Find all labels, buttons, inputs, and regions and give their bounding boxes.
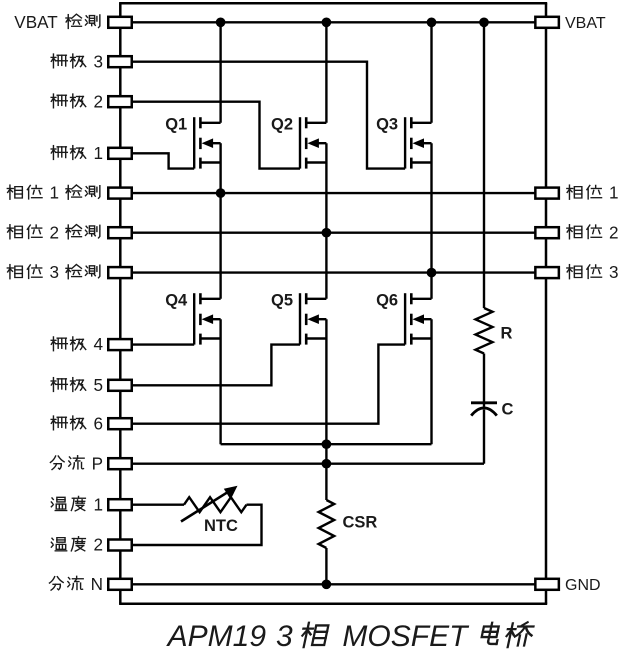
junction phase2-Q2/Q5 — [322, 228, 332, 238]
junction phase1-Q1/Q4 — [216, 188, 226, 198]
wire NTC loop to temp 2 — [120, 505, 261, 545]
pin 相位 1 检测 — [108, 188, 132, 199]
label 温度 1 — [51, 497, 66, 510]
label 栅极 5 — [51, 378, 67, 392]
label 栅极 3 — [51, 54, 67, 68]
wire Q3 drain to VBAT rail — [430, 22, 432, 123]
svg-text:3: 3 — [276, 620, 293, 653]
junction VBAT-Q3 — [427, 17, 437, 27]
junction phase3-Q3/Q6 — [427, 268, 437, 278]
svg-text:6: 6 — [93, 414, 103, 433]
junction VBAT-Q1 — [216, 17, 226, 27]
wire phase 2 rail — [120, 231, 546, 233]
wire phase 1 rail — [120, 192, 546, 194]
transistor Q1 — [194, 117, 220, 168]
pin 相位 2 (right) — [535, 227, 559, 238]
label 栅极 2 — [51, 94, 67, 108]
pin 相位 3 检测 — [108, 267, 132, 278]
wire CSR to shunt N rail — [325, 548, 327, 584]
pin 栅极 3 — [108, 56, 132, 67]
pin 温度 1 — [108, 499, 132, 510]
pin 栅极 5 — [108, 380, 132, 391]
svg-text:GND: GND — [565, 577, 601, 594]
label 栅极 1 — [51, 146, 67, 160]
pin 栅极 4 — [108, 339, 132, 350]
svg-text:1: 1 — [49, 184, 59, 203]
pin 相位 1 (right) — [535, 188, 559, 199]
svg-text:2: 2 — [93, 536, 103, 555]
wire Q6 source down — [430, 319, 432, 444]
junction shunt P-CSR — [322, 459, 332, 469]
svg-text:4: 4 — [93, 335, 103, 354]
IC package outline bottom border — [119, 603, 547, 606]
pin 栅极 6 — [108, 418, 132, 429]
label 相位 3 (right) — [567, 265, 582, 279]
svg-text:1: 1 — [609, 184, 619, 203]
transistor Q6 — [405, 293, 431, 344]
svg-text:C: C — [502, 400, 514, 418]
wire Q1 source to phase 1 rail — [219, 143, 221, 193]
svg-text:Q6: Q6 — [376, 291, 398, 309]
NTC arrow — [181, 486, 238, 522]
wire Q4 drain to phase rail — [219, 193, 221, 299]
pin VBAT 检测 — [108, 17, 132, 28]
wire Q2 source to phase 2 rail — [325, 143, 327, 233]
svg-text:MOSFET: MOSFET — [342, 620, 470, 653]
svg-text:P: P — [92, 454, 103, 473]
label 栅极 6 — [51, 416, 67, 430]
svg-text:2: 2 — [609, 223, 619, 242]
svg-text:Q4: Q4 — [165, 291, 188, 309]
wire gate 5 to Q5 — [120, 345, 300, 386]
pin 分流 N — [108, 579, 132, 590]
label 温度 2 — [51, 538, 66, 551]
wire Q1 drain to VBAT rail — [219, 22, 221, 123]
pin 栅极 1 — [108, 148, 132, 159]
wire Q4-Q6 source join horizontal — [221, 443, 432, 445]
wire gate 2 to Q2 — [120, 102, 300, 169]
pin 温度 2 — [108, 540, 132, 551]
svg-text:3: 3 — [609, 263, 619, 282]
transistor Q4 — [194, 293, 220, 344]
wire gate 1 to Q1 — [120, 153, 194, 168]
resistor CSR — [319, 500, 335, 548]
svg-text:Q2: Q2 — [271, 115, 293, 133]
wire Q2 drain to VBAT rail — [325, 22, 327, 123]
wire Q4 source down — [219, 319, 221, 444]
wire R to C — [483, 354, 485, 407]
pin VBAT (right) — [535, 17, 559, 28]
svg-text:1: 1 — [93, 144, 103, 163]
wire C to shunt P rail — [483, 410, 485, 464]
pin 栅极 2 — [108, 96, 132, 107]
wire VBAT rail — [120, 21, 546, 23]
IC package outline right border — [545, 3, 548, 604]
pin GND (right) — [535, 579, 559, 590]
svg-text:2: 2 — [93, 92, 103, 111]
pin 相位 2 检测 — [108, 227, 132, 238]
junction VBAT-Q2 — [322, 17, 332, 27]
pin 相位 3 (right) — [535, 267, 559, 278]
junction shunt N-CSR — [322, 579, 332, 589]
svg-text:1: 1 — [93, 495, 103, 514]
wire gate 4 to Q4 — [120, 343, 194, 345]
wire shunt P rail — [120, 463, 484, 465]
label 栅极 4 — [51, 337, 67, 351]
svg-text:VBAT: VBAT — [565, 15, 606, 32]
svg-text:Q5: Q5 — [271, 291, 293, 309]
label 分流 P — [50, 456, 64, 470]
wire shunt N / GND rail — [120, 583, 546, 585]
svg-text:3: 3 — [49, 263, 59, 282]
label 相位 2 (right) — [567, 225, 582, 239]
label 相位 3 检测 — [7, 265, 22, 279]
svg-text:VBAT: VBAT — [14, 13, 58, 32]
wire gate 3 to Q3 — [120, 62, 405, 169]
svg-text:CSR: CSR — [343, 514, 378, 532]
wire temp 1 to NTC — [120, 504, 184, 506]
transistor Q3 — [405, 117, 431, 168]
wire Q3 source to phase 3 rail — [430, 143, 432, 272]
resistor R — [476, 308, 493, 354]
label 分流 N — [49, 577, 63, 591]
wire Q5 drain to phase rail — [325, 233, 327, 299]
IC package outline top border — [119, 2, 547, 5]
wire gate 6 to Q6 — [120, 345, 405, 424]
svg-text:Q3: Q3 — [376, 115, 398, 133]
pin 分流 P — [108, 458, 132, 469]
junction VBAT-RC — [479, 17, 489, 27]
svg-text:N: N — [91, 575, 103, 594]
label 相位 1 检测 — [7, 185, 22, 199]
capacitor C — [471, 403, 497, 416]
thermistor NTC — [184, 497, 247, 512]
wire VBAT rail to R — [483, 22, 485, 308]
label 相位 1 (right) — [567, 185, 582, 199]
label 相位 2 检测 — [7, 225, 22, 239]
wire shunt P to CSR — [325, 464, 327, 500]
svg-text:NTC: NTC — [204, 517, 238, 535]
svg-text:R: R — [501, 324, 513, 342]
wire phase 3 rail — [120, 271, 546, 273]
svg-text:2: 2 — [49, 223, 59, 242]
transistor Q5 — [300, 293, 326, 344]
svg-text:5: 5 — [93, 376, 103, 395]
svg-text:3: 3 — [93, 52, 103, 71]
svg-text:Q1: Q1 — [165, 115, 187, 133]
wire Q6 drain to phase rail — [430, 273, 432, 299]
svg-text:APM19: APM19 — [166, 620, 267, 653]
IC package outline left border — [119, 3, 122, 604]
wire Q5 source to shunt P rail — [325, 319, 327, 464]
transistor Q2 — [300, 117, 326, 168]
junction Q4/Q5/Q6 sources — [322, 439, 332, 449]
